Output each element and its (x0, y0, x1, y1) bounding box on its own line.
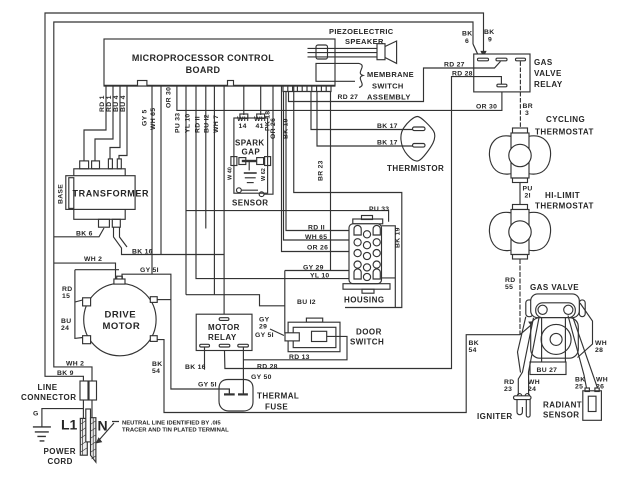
svg-text:LINE: LINE (38, 383, 58, 392)
svg-text:RD II: RD II (308, 224, 325, 231)
svg-text:DOOR: DOOR (356, 328, 382, 337)
svg-text:OR 30: OR 30 (166, 87, 173, 108)
svg-text:RD: RD (504, 379, 514, 386)
svg-text:THERMAL: THERMAL (257, 392, 299, 401)
svg-text:GY 5I: GY 5I (255, 332, 274, 339)
svg-text:SENSOR: SENSOR (543, 411, 580, 420)
svg-text:55: 55 (505, 284, 513, 291)
svg-text:THERMOSTAT: THERMOSTAT (535, 128, 594, 137)
svg-text:28: 28 (595, 347, 603, 354)
svg-text:YL 10: YL 10 (185, 113, 192, 133)
svg-text:L1: L1 (61, 417, 78, 433)
svg-text:BOARD: BOARD (186, 65, 221, 75)
svg-text:BU I2: BU I2 (297, 299, 316, 306)
svg-text:MICROPROCESSOR CONTROL: MICROPROCESSOR CONTROL (132, 53, 274, 63)
svg-text:2I: 2I (525, 193, 531, 200)
svg-text:RD: RD (505, 277, 515, 284)
svg-text:BK 16: BK 16 (185, 364, 206, 371)
svg-text:GAS: GAS (534, 58, 553, 67)
svg-text:23: 23 (504, 386, 512, 393)
svg-text:9: 9 (488, 37, 492, 44)
svg-text:BK 17: BK 17 (377, 140, 398, 147)
svg-text:PU: PU (523, 186, 533, 193)
svg-text:NEUTRAL LINE IDENTIFIED BY .0I: NEUTRAL LINE IDENTIFIED BY .0I5 (122, 420, 221, 426)
svg-text:BU 4: BU 4 (113, 95, 120, 112)
svg-text:RD: RD (62, 286, 72, 293)
svg-text:SENSOR: SENSOR (232, 199, 269, 208)
svg-text:THERMOSTAT: THERMOSTAT (535, 202, 594, 211)
svg-text:OR 30: OR 30 (476, 104, 497, 111)
svg-text:PIEZOELECTRIC: PIEZOELECTRIC (329, 27, 394, 36)
svg-text:41: 41 (256, 123, 264, 130)
svg-text:RD 1: RD 1 (106, 95, 113, 112)
svg-text:MOTOR: MOTOR (208, 323, 240, 332)
svg-text:GY 5I: GY 5I (198, 382, 217, 389)
svg-text:OR 26: OR 26 (307, 245, 328, 252)
svg-text:29: 29 (259, 324, 267, 331)
svg-text:RD 1: RD 1 (99, 95, 106, 112)
svg-text:WH 2: WH 2 (66, 361, 84, 368)
svg-text:RD 27: RD 27 (338, 94, 359, 101)
svg-text:POWER: POWER (44, 447, 76, 456)
svg-text:GAS VALVE: GAS VALVE (530, 283, 579, 292)
svg-text:RELAY: RELAY (534, 80, 563, 89)
svg-text:PU 33: PU 33 (369, 206, 389, 213)
svg-text:BU: BU (61, 318, 71, 325)
svg-text:RELAY: RELAY (208, 333, 237, 342)
svg-text:BK 9: BK 9 (57, 370, 74, 377)
svg-text:IGNITER: IGNITER (477, 412, 513, 421)
svg-text:ASSEMBLY: ASSEMBLY (367, 93, 411, 102)
svg-text:BK 16: BK 16 (132, 249, 153, 256)
svg-text:WH 2: WH 2 (84, 256, 102, 263)
svg-text:14: 14 (239, 123, 247, 130)
svg-text:THERMISTOR: THERMISTOR (387, 164, 444, 173)
svg-text:RD 27: RD 27 (444, 62, 465, 69)
svg-text:BK: BK (575, 377, 585, 384)
svg-text:6: 6 (465, 38, 469, 45)
svg-text:GY 5: GY 5 (142, 109, 149, 126)
svg-text:SPARK: SPARK (235, 139, 265, 148)
svg-text:BU 27: BU 27 (537, 367, 558, 374)
svg-text:BK: BK (469, 340, 479, 347)
svg-text:CYCLING: CYCLING (546, 115, 585, 124)
svg-text:RD II: RD II (194, 116, 201, 133)
svg-text:YL 10: YL 10 (310, 272, 330, 279)
svg-text:WH: WH (237, 116, 249, 123)
svg-text:GAP: GAP (242, 148, 261, 157)
svg-text:WH 65: WH 65 (150, 108, 157, 130)
svg-text:WH 7: WH 7 (213, 115, 220, 133)
svg-text:PU 33: PU 33 (175, 113, 182, 133)
svg-text:RD 13: RD 13 (289, 354, 310, 361)
svg-text:54: 54 (469, 347, 477, 354)
svg-text:BK: BK (152, 361, 162, 368)
svg-text:54: 54 (152, 368, 160, 375)
svg-text:BU I2: BU I2 (204, 114, 211, 133)
svg-text:WH 65: WH 65 (305, 234, 327, 241)
svg-text:DRIVE: DRIVE (105, 310, 137, 321)
svg-text:G: G (33, 411, 39, 418)
svg-text:BR 23: BR 23 (318, 160, 325, 181)
svg-text:BK 6: BK 6 (76, 231, 93, 238)
svg-text:HI-LIMIT: HI-LIMIT (545, 191, 580, 200)
svg-text:N: N (98, 418, 108, 434)
svg-text:BK 19: BK 19 (395, 227, 402, 248)
svg-text:VALVE: VALVE (534, 69, 562, 78)
svg-text:TRACER AND TIN PLATED TERMINAL: TRACER AND TIN PLATED TERMINAL (122, 427, 229, 433)
svg-text:WH: WH (596, 377, 608, 384)
svg-text:GY 5I: GY 5I (140, 267, 159, 274)
svg-text:MEMBRANE: MEMBRANE (367, 70, 414, 79)
svg-text:CONNECTOR: CONNECTOR (21, 393, 76, 402)
svg-text:HOUSING: HOUSING (344, 296, 385, 305)
svg-text:BK: BK (462, 31, 472, 38)
svg-text:BK 19: BK 19 (283, 118, 290, 139)
svg-text:W 62: W 62 (261, 168, 267, 181)
svg-text:BK: BK (484, 29, 494, 36)
svg-text:GY 29: GY 29 (303, 264, 324, 271)
svg-text:WH: WH (595, 340, 607, 347)
svg-text:24: 24 (528, 386, 536, 393)
svg-text:RADIANT: RADIANT (543, 401, 582, 410)
svg-text:MOTOR: MOTOR (103, 321, 141, 332)
svg-text:W 40: W 40 (228, 167, 234, 180)
svg-text:SWITCH: SWITCH (372, 82, 404, 91)
svg-text:SWITCH: SWITCH (350, 338, 384, 347)
svg-text:24: 24 (61, 325, 69, 332)
svg-text:25: 25 (575, 384, 583, 391)
svg-text:CORD: CORD (48, 457, 73, 466)
svg-text:RD 28: RD 28 (257, 364, 278, 371)
svg-text:BASE: BASE (58, 184, 65, 204)
svg-text:BK 17: BK 17 (377, 123, 398, 130)
svg-text:15: 15 (62, 293, 70, 300)
svg-text:SPEAKER: SPEAKER (345, 37, 384, 46)
svg-text:26: 26 (596, 384, 604, 391)
svg-text:WH: WH (528, 379, 540, 386)
svg-text:OR 26: OR 26 (270, 118, 277, 139)
svg-text:GY 50: GY 50 (251, 374, 272, 381)
svg-text:3: 3 (525, 110, 529, 117)
svg-text:FUSE: FUSE (265, 403, 288, 412)
svg-text:GY: GY (259, 317, 270, 324)
svg-text:BU 4: BU 4 (120, 95, 127, 112)
svg-text:TRANSFORMER: TRANSFORMER (73, 189, 150, 199)
svg-text:BR: BR (523, 103, 533, 110)
